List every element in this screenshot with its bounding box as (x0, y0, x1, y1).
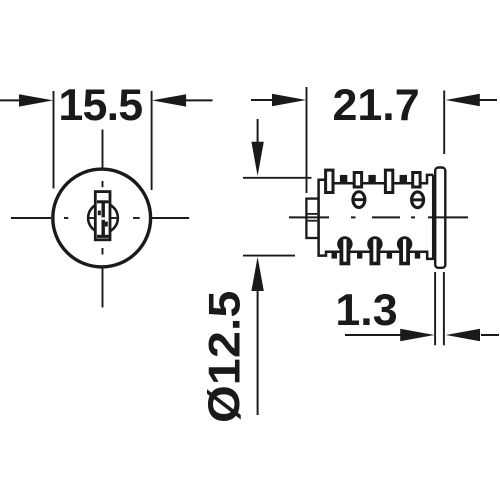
vertical centerline top dot (102, 181, 104, 187)
side view centerline dash 3 (428, 216, 468, 218)
vertical centerline top long dash (102, 130, 104, 169)
top bump 2 (368, 175, 375, 185)
top pin chamber tab 1 (326, 170, 333, 192)
bottom bump 3 (387, 251, 392, 259)
keyway outer rect (95, 192, 110, 240)
top pin chamber tab 4 (413, 173, 420, 188)
bottom bump 1 (332, 251, 338, 259)
horizontal centerline right dot (133, 217, 140, 219)
dim 15.5 right arrow (186, 99, 213, 101)
cylinder face circle (53, 169, 151, 267)
bottom pin 1 (337, 236, 352, 251)
dim 21.7 right arrow (479, 99, 497, 101)
dim 1.3 left extension line (434, 272, 436, 345)
top bump 3 (400, 175, 407, 185)
horizontal centerline left dot (64, 217, 68, 219)
top bump 1 (340, 175, 347, 185)
keyway middle bar gap (102, 217, 105, 220)
dim 21.7 left arrow (251, 99, 275, 101)
cam inner line bottom (308, 220, 318, 222)
bottom pin 3 (397, 236, 412, 251)
top pin chamber tab 2 (354, 173, 361, 188)
keyway inner top line (97, 200, 109, 203)
dim 12.5 lower extension line (243, 255, 295, 257)
cam inner line top (308, 213, 318, 215)
dim 12.5 upper extension line (243, 177, 312, 179)
flange (435, 168, 445, 268)
bottom pin 2 (367, 236, 382, 251)
dim 15.5 right extension line (151, 91, 153, 190)
side view centerline dot 1 (351, 216, 356, 218)
dim 1.3 left arrow (345, 334, 402, 336)
horizontal centerline right stub (110, 217, 119, 219)
screw head 2 (412, 192, 424, 208)
side view centerline dash 2 (372, 216, 400, 218)
vertical centerline bottom dot (102, 248, 104, 255)
horizontal centerline left long dash (11, 217, 51, 219)
dim 1.3 right extension line (443, 272, 445, 345)
bottom bump 4 (415, 251, 420, 259)
keyway middle bar (102, 203, 105, 235)
side view centerline dash 1 (289, 216, 329, 218)
dim 12.5 down arrow (257, 119, 259, 144)
svg-text:Ø12.5: Ø12.5 (199, 291, 249, 424)
cam (306, 199, 318, 238)
screw head 1 (353, 192, 365, 208)
plug circle (88, 203, 118, 233)
svg-text:21.7: 21.7 (332, 80, 419, 130)
svg-text:1.3: 1.3 (335, 285, 397, 335)
dim 1.3 right arrow (481, 334, 499, 336)
bottom bump 2 (357, 251, 362, 259)
top pin chamber tab 3 (385, 170, 392, 192)
keyway right notch (105, 222, 108, 227)
dim 15.5 left arrow (0, 99, 22, 101)
dim 21.7 right extension line (443, 91, 445, 155)
dim 15.5 left extension line (53, 91, 55, 189)
dim 21.7 left extension line (306, 87, 308, 193)
dim 12.5 up arrow (257, 290, 259, 415)
vertical centerline bottom long dash (102, 266, 104, 308)
keyway inner bottom line (97, 235, 109, 238)
side view centerline dot 2 (411, 216, 415, 218)
svg-text:15.5: 15.5 (58, 80, 142, 130)
horizontal centerline left stub (87, 217, 95, 219)
keyway left notch (98, 211, 101, 216)
cylinder body outline (319, 175, 434, 259)
horizontal centerline right long dash (152, 217, 189, 219)
